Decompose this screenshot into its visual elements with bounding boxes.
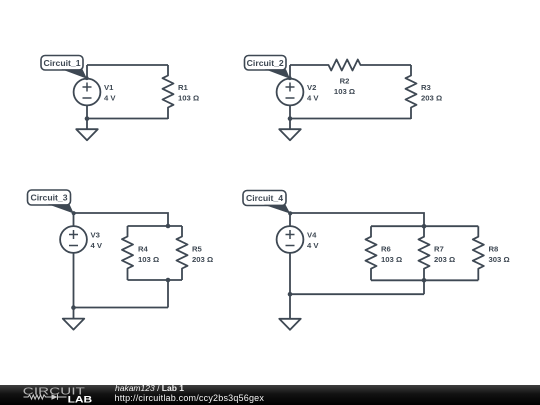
svg-text:R3: R3	[421, 83, 431, 92]
svg-text:4 V: 4 V	[307, 241, 319, 250]
svg-text:4 V: 4 V	[91, 241, 103, 250]
svg-text:4 V: 4 V	[104, 93, 116, 102]
svg-text:103 Ω: 103 Ω	[178, 94, 199, 103]
svg-text:V3: V3	[91, 231, 100, 240]
svg-text:R1: R1	[178, 83, 189, 92]
svg-text:Circuit_4: Circuit_4	[246, 194, 284, 203]
svg-text:R6: R6	[381, 245, 391, 254]
svg-text:http://circuitlab.com/ccy2bs3q: http://circuitlab.com/ccy2bs3q56gex	[115, 393, 265, 403]
svg-text:R4: R4	[138, 245, 149, 254]
svg-text:203 Ω: 203 Ω	[421, 94, 442, 103]
svg-text:103 Ω: 103 Ω	[334, 87, 355, 96]
svg-text:LAB: LAB	[68, 394, 93, 405]
svg-text:hakam123 / Lab 1: hakam123 / Lab 1	[115, 383, 184, 393]
svg-text:R5: R5	[192, 245, 203, 254]
svg-text:203 Ω: 203 Ω	[434, 255, 455, 264]
svg-text:V4: V4	[307, 231, 317, 240]
svg-text:303 Ω: 303 Ω	[489, 255, 510, 264]
svg-text:R7: R7	[434, 245, 444, 254]
svg-text:Circuit_2: Circuit_2	[247, 59, 285, 68]
svg-text:R2: R2	[340, 77, 350, 86]
svg-text:R8: R8	[489, 245, 500, 254]
svg-text:203 Ω: 203 Ω	[192, 255, 213, 264]
svg-text:103 Ω: 103 Ω	[138, 255, 159, 264]
svg-text:V2: V2	[307, 83, 316, 92]
svg-text:V1: V1	[104, 83, 114, 92]
svg-text:Circuit_3: Circuit_3	[31, 194, 69, 203]
svg-text:Circuit_1: Circuit_1	[44, 59, 82, 68]
svg-text:103 Ω: 103 Ω	[381, 255, 402, 264]
svg-text:4 V: 4 V	[307, 93, 319, 102]
